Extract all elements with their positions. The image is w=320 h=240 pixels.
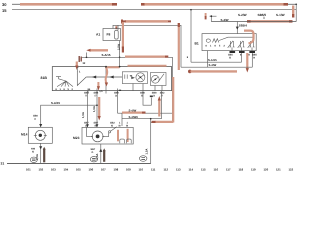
pin 1 tick: [76, 68, 78, 73]
svg-text:1,5A: 1,5A: [81, 112, 85, 118]
relay bus wire: [219, 37, 254, 40]
motor M23 symbol: [92, 131, 103, 142]
svg-text:A1: A1: [96, 32, 100, 36]
svg-text:30: 30: [2, 2, 7, 7]
svg-text:112: 112: [164, 168, 169, 172]
svg-text:109: 109: [126, 168, 131, 172]
wire branch above relay: [210, 16, 297, 33]
switch arm: [77, 72, 86, 86]
fuse F8 symbol: [115, 30, 119, 39]
current bar M23: [103, 150, 105, 162]
highlight arrow into box pin 1: [76, 62, 78, 67]
svg-text:113: 113: [176, 168, 181, 172]
svg-text:111: 111: [151, 168, 156, 172]
wire S-A/15 line: [82, 57, 172, 122]
highlight top-right horizontal: [250, 20, 289, 23]
ground oval M14: [30, 157, 37, 162]
arrows into M23: [86, 124, 98, 127]
highlight arrow to left at y50: [90, 49, 108, 51]
svg-text:117: 117: [226, 168, 231, 172]
svg-text:2,5W: 2,5W: [117, 43, 120, 50]
motor M23 box: [82, 127, 133, 144]
highlight y71 with node: [188, 70, 192, 74]
relay connector bars: [230, 51, 256, 53]
wire relay coil pin drop: [207, 51, 209, 68]
highlight relay down arrow: [246, 53, 248, 69]
svg-text:M14: M14: [21, 133, 28, 137]
motor symbol subunit1: [136, 73, 145, 82]
ruler numbers: [26, 168, 294, 172]
wire relay coil feed y62: [191, 10, 242, 63]
wire inside box to subunit: [86, 76, 122, 78]
svg-text:101: 101: [26, 168, 31, 172]
svg-text:102: 102: [39, 168, 44, 172]
highlight over pin wire inside box: [97, 82, 99, 87]
svg-text:81B: 81B: [41, 76, 48, 80]
wire pin drop x106: [105, 67, 107, 94]
highlight curve into relay: [244, 31, 254, 44]
highlight L right: [155, 77, 173, 123]
wire M23 to ground: [100, 144, 102, 163]
svg-text:105: 105: [76, 168, 81, 172]
motor M14 box: [28, 127, 52, 143]
wire subunit pin to connector: [143, 91, 151, 106]
svg-text:115: 115: [201, 168, 206, 172]
wire y113: [118, 91, 173, 114]
wire y118.7: [122, 91, 162, 126]
svg-text:119: 119: [251, 168, 256, 172]
svg-text:S-4/W: S-4/W: [221, 18, 229, 22]
node rail30 right corner: [295, 3, 297, 5]
svg-text:15: 15: [2, 8, 7, 13]
M23 contact feet: [120, 139, 125, 143]
svg-text:S-2/W: S-2/W: [238, 13, 247, 17]
wire rail 31: [7, 162, 151, 164]
fuse box A1: [103, 29, 121, 41]
svg-text:106: 106: [89, 168, 94, 172]
arrow into M14: [39, 124, 42, 127]
svg-text:S-4/W: S-4/W: [209, 63, 217, 67]
relay contact 1: [228, 41, 235, 48]
wire drop to ground right: [150, 119, 152, 164]
wire box pin to M23 left: [87, 91, 89, 128]
highlight y113: [122, 111, 142, 113]
svg-text:1,5A: 1,5A: [92, 106, 96, 112]
svg-text:110: 110: [139, 168, 144, 172]
svg-text:31: 31: [1, 161, 5, 165]
rail 30 highlight right: [144, 3, 284, 6]
highlight bar on S-A/15 wire: [125, 55, 165, 57]
wire left S-A/15 to M14: [41, 105, 97, 127]
current bar M14: [43, 149, 45, 163]
motor M14 symbol: [35, 130, 45, 140]
svg-text:S-1/W: S-1/W: [276, 13, 285, 17]
highlight drop to M23: [98, 97, 100, 117]
M23 internal wires: [87, 127, 109, 136]
highlight tick at fuse feed corner: [115, 26, 117, 28]
highlight mid segment y21: [125, 20, 168, 23]
relay pins to bars: [232, 48, 252, 52]
subunit1 ticks: [125, 75, 127, 79]
wire box pin to M23 mid: [96, 91, 98, 128]
relay contact 2: [238, 41, 245, 48]
relay coil: [213, 39, 219, 43]
wire relay y67: [181, 66, 252, 68]
node rail15/relay drop: [190, 9, 192, 11]
svg-text:S-A/15: S-A/15: [102, 53, 111, 57]
svg-text:103: 103: [51, 168, 56, 172]
node inside box: [105, 76, 107, 78]
node S-A15 left junction: [86, 56, 88, 58]
relay contact 3: [248, 41, 255, 48]
wire right drop from rail 30: [295, 4, 297, 21]
wire rail 15: [12, 9, 296, 11]
connector 32: [79, 56, 81, 62]
svg-text:SB5/5: SB5/5: [258, 13, 267, 17]
highlight on box top edge left: [105, 66, 120, 68]
highlight short arrow above relay: [205, 13, 207, 17]
motor symbol subunit2: [151, 75, 159, 83]
node fuse/S-A15 junction: [119, 56, 121, 58]
svg-text:S-A/15: S-A/15: [51, 101, 60, 105]
subunit pins: [133, 84, 162, 91]
svg-text:M23: M23: [73, 136, 80, 140]
svg-text:B1: B1: [195, 42, 199, 46]
highlight long drop x177.9: [178, 23, 180, 70]
arrow into relay pin: [236, 27, 239, 30]
svg-text:108: 108: [114, 168, 119, 172]
highlight on box top edge right: [128, 65, 167, 67]
svg-text:SB5/4: SB5/4: [239, 23, 247, 27]
switch fan symbol: [56, 77, 61, 79]
subunit box 1: [122, 72, 147, 84]
highlight up-arrow x159: [158, 99, 160, 117]
relay pin drops: [242, 53, 253, 67]
svg-text:116: 116: [214, 168, 219, 172]
wire M14 to ground: [40, 143, 42, 163]
subunit box 2: [151, 73, 167, 86]
svg-text:S-4/W: S-4/W: [129, 109, 137, 113]
svg-text:121: 121: [276, 168, 281, 172]
svg-text:120: 120: [264, 168, 269, 172]
svg-text:107: 107: [101, 168, 106, 172]
svg-text:114: 114: [189, 168, 194, 172]
svg-text:S-A/15: S-A/15: [208, 58, 217, 62]
svg-text:104: 104: [64, 168, 69, 172]
M23 switch: [109, 131, 111, 133]
control unit box 81B: [52, 67, 171, 91]
ground oval M23: [90, 157, 97, 162]
rail 30 highlight left: [20, 3, 113, 6]
svg-text:118: 118: [239, 168, 244, 172]
node branch: [210, 15, 212, 17]
relay circle: [206, 39, 210, 42]
svg-text:1,5A: 1,5A: [145, 149, 149, 155]
wire fuse feed horizontal: [113, 25, 181, 67]
highlight right drop: [292, 6, 294, 15]
svg-text:F8: F8: [107, 32, 111, 36]
relay box B1: [202, 34, 256, 51]
ground oval right: [140, 156, 147, 162]
wire through fuse: [118, 25, 120, 67]
highlight wavy drop inside box: [106, 68, 108, 84]
M23 highlights: [117, 130, 119, 142]
box bottom pin ticks: [88, 89, 118, 94]
svg-text:122: 122: [289, 168, 294, 172]
wire rail 30: [12, 3, 296, 5]
highlight fuse drop: [122, 22, 124, 48]
